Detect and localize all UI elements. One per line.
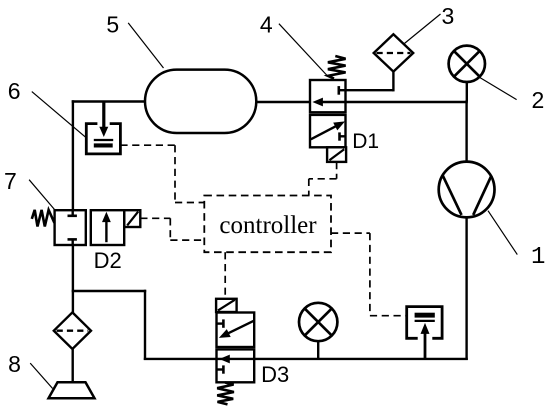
pressure sensor (bottom right box with plates) [407,307,442,339]
svg-text:D3: D3 [261,362,289,387]
label 4 (valve D1 spring) with pointer [260,11,328,76]
svg-text:5: 5 [106,12,119,38]
valve D2 solenoid actuator (right) [124,210,140,227]
valve D2 blocked port (left square, top) [68,210,77,216]
wire: right vertical (junction down to compressor) [465,100,467,162]
silencer/muffler (component 8) [49,382,95,398]
signal wire: sensor 6 to controller [120,145,204,202]
wire: valve D1 exhaust up to filter 3 [346,71,394,92]
valve D1 flow-path arrow (top square, pointing left) [312,98,345,107]
svg-text:7: 7 [4,168,17,194]
label 8 (silencer) with pointer [8,351,52,388]
signal wire: controller to valve D3 solenoid [224,252,226,299]
wire: valve D2 down to filter 8 [72,244,74,314]
signal wire: valve D1 solenoid to controller [309,162,337,196]
wire: filter 8 to silencer [71,349,73,383]
valve D1 blocked port (bottom square, right) [340,132,346,140]
wire: bottom-left riser and branch to left vertical [72,290,147,360]
valve D2 return spring (left) [32,210,55,227]
filter 3 (diamond) [374,34,414,71]
wire: left vertical pipe from top corner down to valve D2 [72,100,74,211]
svg-text:6: 6 [8,78,21,104]
svg-text:4: 4 [260,11,273,37]
valve D2 body (two position squares, horizontal) [55,210,125,245]
signal wire: valve D2 solenoid to controller [140,218,204,240]
label 5 (tank) with pointer [106,12,163,68]
wire: bottom main pipe [144,358,468,360]
filter 8 (diamond) [54,312,91,349]
designator D1 [352,130,379,153]
wire: compressor down to bottom-right corner [465,217,467,360]
svg-text:controller: controller [219,212,317,239]
svg-text:2: 2 [532,87,545,113]
svg-text:3: 3 [442,3,455,29]
wire: valve D1 to right junction [346,101,468,103]
pressure gauge (circle with X) on bottom pipe [299,303,337,359]
pressure sensor 6 (box with plates) [86,124,120,154]
label 1 (compressor) with pointer [488,211,545,271]
accumulator tank 5 [145,70,256,133]
svg-text:1: 1 [531,244,545,271]
valve D3 body (two position squares) [217,313,255,383]
designator D2 [94,248,122,273]
valve D1 solenoid actuator (bottom) [327,147,346,162]
label 7 (valve D2) with pointer [4,168,54,209]
label 3 (filter) with pointer [404,3,454,44]
valve D2 flow arrow (right square, pointing up) [102,212,111,242]
controller (dashed box) [204,196,331,253]
valve D1 return spring (top) [328,56,346,79]
wire: up-arrow stub from bottom pipe into pressure sensor [421,323,430,359]
valve D3 blocked port (bottom square, left) [217,365,224,373]
label 6 (sensor) with pointer [8,78,87,139]
valve D3 blocked port (top square, left) [217,319,224,327]
svg-text:D2: D2 [94,248,122,273]
valve D3 solenoid actuator (top) [216,299,237,312]
svg-text:8: 8 [8,351,21,377]
label 2 (exhaust symbol) with pointer [480,78,544,113]
valve D3 return spring (bottom) [217,383,234,405]
valve D3 flow-path arrow (bottom square, pointing left) [219,355,230,364]
valve D1 body (two position squares) [310,80,346,147]
svg-text:D1: D1 [352,130,379,153]
wire: stub with down arrow into sensor 6 [99,102,108,138]
wire: tank to valve D1 [256,101,310,103]
designator D3 [261,362,289,387]
valve D1 crossover arrow (bottom square) [311,121,345,139]
compressor 1 (circle with V) [439,162,495,218]
exhaust/source symbol 2 (circle with X) [449,46,485,102]
valve D1 blocked port (top square, right) [339,86,346,95]
wire: top horizontal pipe (left of tank) [72,100,147,102]
signal wire: controller to bottom-right pressure sensor [331,233,407,316]
valve D3 crossover arrow (top square) [219,321,254,338]
valve D2 blocked port (left square, bottom) [68,239,77,245]
